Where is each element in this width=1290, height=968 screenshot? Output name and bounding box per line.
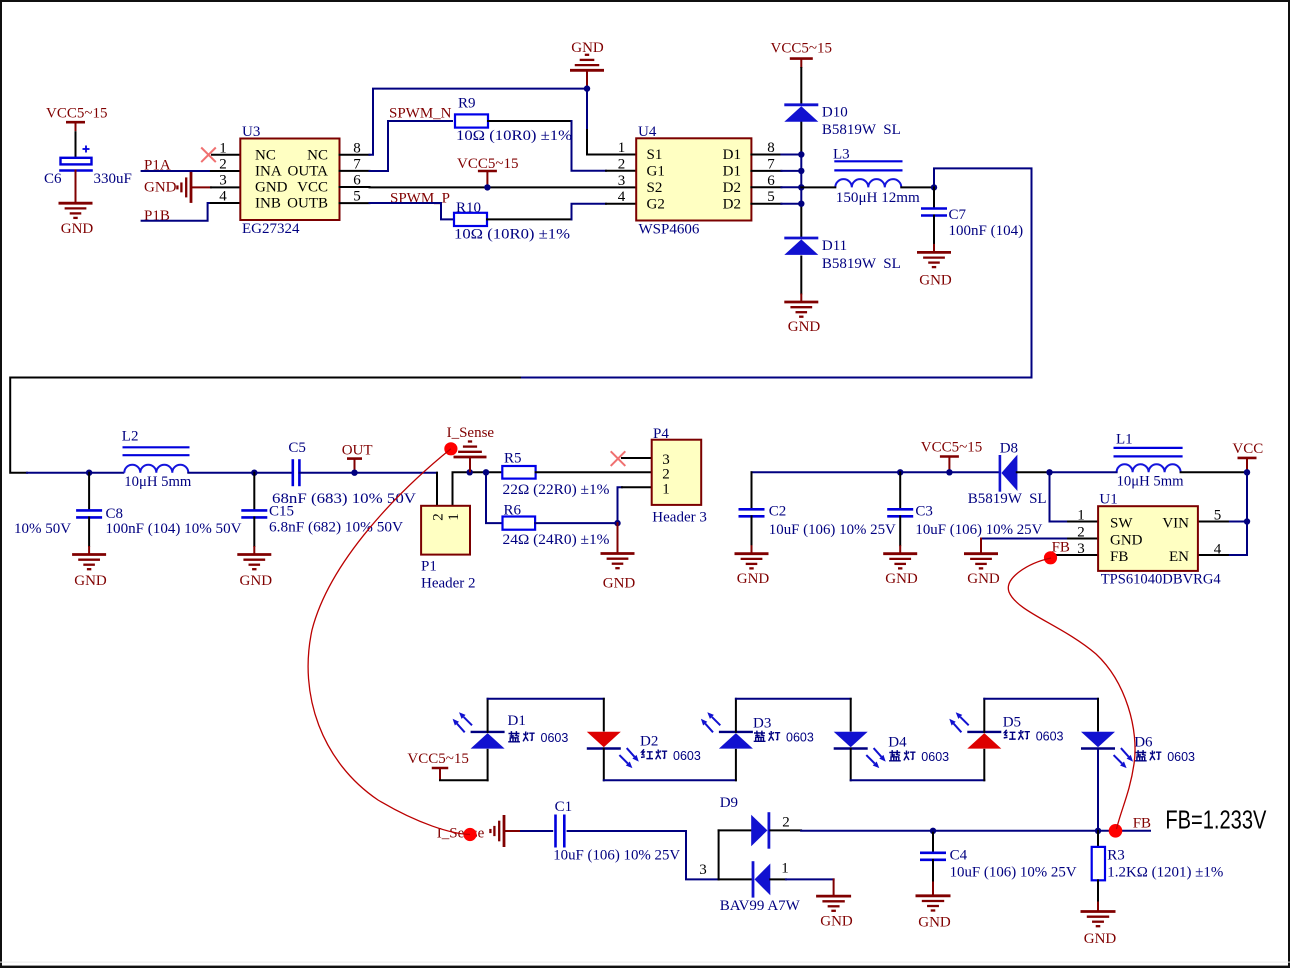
node junction L3/C7	[931, 184, 937, 190]
svg-text:4: 4	[618, 189, 626, 205]
node junction C15	[251, 470, 257, 476]
resistor R6 24R	[503, 517, 536, 530]
ground (C6)	[75, 195, 77, 204]
wire D3 to D4 (top rail)	[736, 698, 851, 700]
svg-text:GND: GND	[967, 571, 1000, 587]
node junction R6 branch	[483, 469, 489, 475]
svg-text:D6: D6	[1134, 735, 1153, 751]
svg-text:S1: S1	[647, 147, 663, 163]
svg-text:100nF (104): 100nF (104)	[949, 223, 1024, 239]
resistor R10 10R	[454, 213, 487, 226]
svg-text:OUT: OUT	[342, 443, 373, 459]
svg-text:C5: C5	[288, 440, 306, 456]
node junction I_Sense tap	[467, 469, 473, 475]
power port VCC5~15 (mid)	[478, 170, 497, 173]
svg-text:Header 3: Header 3	[652, 510, 707, 526]
wire ground to U3 pin 3	[191, 186, 211, 188]
svg-text:SW: SW	[1110, 516, 1133, 532]
mosfet array U4 WSP4606	[636, 138, 751, 220]
wire C3 to ground	[899, 516, 901, 545]
regulator U1 TPS61040DBVRG4	[1098, 506, 1198, 571]
wire R5 to P4 pin 2	[536, 471, 652, 473]
ground (P4/R6)	[601, 552, 635, 555]
wire D5 to D6 (top rail)	[984, 698, 1098, 700]
wire C4 to ground	[932, 860, 934, 882]
svg-text:EG27324: EG27324	[242, 221, 300, 237]
svg-text:0603: 0603	[921, 750, 949, 764]
svg-text:2: 2	[219, 156, 227, 172]
svg-text:1: 1	[618, 140, 626, 156]
LED D2 red 0603	[603, 699, 605, 731]
svg-text:4: 4	[219, 189, 227, 205]
red marker dot FB pin	[1044, 551, 1057, 564]
svg-text:2: 2	[431, 513, 447, 521]
node junction VIN	[1244, 518, 1250, 524]
svg-text:U3: U3	[242, 124, 260, 140]
ground (C4)	[932, 882, 934, 896]
wire P4 pin 3 stub	[622, 457, 652, 459]
svg-text:Header 2: Header 2	[421, 576, 476, 592]
ground (top, inverted)	[586, 70, 588, 88]
capacitor C2 10uF	[751, 472, 753, 508]
svg-text:6.8nF (682) 10% 50V: 6.8nF (682) 10% 50V	[269, 520, 403, 536]
diode D8 B5819W	[999, 456, 1002, 490]
wire U4 right pin stubs to drain rail	[751, 154, 781, 156]
wire P1A to U3 pin 2	[142, 170, 211, 172]
power port VCC5~15 (top)	[790, 57, 813, 60]
svg-text:GND: GND	[820, 914, 853, 930]
svg-text:BAV99 A7W: BAV99 A7W	[720, 898, 801, 914]
wire L3 to C7 node	[901, 186, 934, 188]
LED D3 blue 0603	[735, 750, 737, 781]
svg-text:3: 3	[618, 173, 626, 189]
svg-text:WSP4606: WSP4606	[639, 222, 700, 238]
svg-text:GND: GND	[571, 40, 604, 56]
svg-text:D1: D1	[723, 147, 741, 163]
svg-text:NC: NC	[307, 147, 328, 163]
svg-text:VCC5~15: VCC5~15	[407, 751, 468, 767]
node junction OUT	[351, 470, 357, 476]
ground (R3)	[1081, 910, 1116, 913]
svg-text:VCC: VCC	[1232, 441, 1263, 457]
LED D1 blue 0603	[487, 750, 489, 781]
svg-text:D2: D2	[723, 196, 741, 212]
red marker dot I_Sense top	[444, 442, 457, 455]
diode D10 B5819W	[784, 103, 818, 106]
svg-text:L2: L2	[122, 429, 139, 445]
svg-text:10μH 5mm: 10μH 5mm	[124, 474, 191, 490]
svg-text:D2: D2	[723, 180, 741, 196]
svg-text:GND: GND	[1110, 533, 1143, 549]
wire drain rail to L3	[801, 186, 835, 188]
node junction FB/R3	[1095, 828, 1101, 834]
diode D9 upper (pin 2)	[719, 829, 752, 831]
svg-text:VCC5~15: VCC5~15	[457, 156, 518, 172]
wire U3 pin7 to R9	[370, 121, 453, 171]
svg-text:GND: GND	[61, 221, 94, 237]
wire D8 to SW node	[1017, 471, 1050, 473]
wire C6 to ground	[75, 171, 77, 195]
svg-text:D1: D1	[723, 164, 741, 180]
svg-text:3: 3	[1077, 541, 1085, 557]
svg-text:10uF (106) 10% 25V: 10uF (106) 10% 25V	[915, 522, 1042, 538]
wire R6 branch down	[486, 472, 503, 523]
svg-text:INA: INA	[255, 164, 282, 180]
ground (C3)	[899, 545, 901, 554]
wire GND rail down to U4 pin 1	[586, 89, 588, 130]
svg-text:1: 1	[446, 513, 462, 521]
svg-text:C1: C1	[555, 799, 573, 815]
wire C15 to ground	[253, 517, 255, 546]
wire D1 to D2 (top rail)	[488, 698, 604, 700]
svg-text:B5819W SL: B5819W SL	[968, 491, 1047, 507]
no-connect X on P4 pin 3	[611, 451, 626, 466]
node junctions on drain rail	[798, 151, 804, 157]
wire to P4 ground	[617, 523, 619, 553]
svg-text:VIN: VIN	[1162, 516, 1189, 532]
wire U1 pin5 VIN	[1228, 521, 1247, 523]
wire C5 to P1	[299, 472, 437, 474]
inductor L1 10uH	[1114, 447, 1183, 449]
node junction C8	[86, 470, 92, 476]
wire C7 to ground	[933, 216, 935, 244]
svg-text:R6: R6	[504, 503, 522, 519]
svg-text:C8: C8	[106, 506, 124, 522]
power port VCC5~15 (bottom)	[432, 767, 449, 770]
wire main filter rail left	[27, 472, 123, 474]
wire VCC rail down to U1 EN	[1228, 472, 1247, 555]
power port VCC5~15 (C6 input)	[66, 121, 85, 124]
svg-text:NC: NC	[255, 147, 276, 163]
svg-text:2: 2	[662, 467, 670, 483]
svg-text:G2: G2	[647, 196, 665, 212]
header P1 Header 2	[421, 506, 470, 555]
wire R9 to U4 pin 2	[488, 120, 572, 122]
wire U3 pin6 VCC to U4 pin 3	[370, 186, 637, 188]
power port OUT	[347, 457, 362, 460]
svg-text:GND: GND	[144, 180, 177, 196]
svg-text:B5819W SL: B5819W SL	[822, 122, 901, 138]
svg-text:S2: S2	[647, 180, 663, 196]
wire D11 to ground	[800, 257, 802, 294]
svg-text:0603: 0603	[1167, 750, 1195, 764]
svg-text:L1: L1	[1116, 432, 1133, 448]
svg-text:B5819W SL: B5819W SL	[822, 256, 901, 272]
power port I_Sense (bottom, sideways)	[503, 815, 506, 847]
svg-text:0603: 0603	[541, 731, 569, 745]
svg-text:1: 1	[662, 481, 670, 497]
header P4 Header 3	[652, 440, 702, 505]
svg-text:FB=1.233V: FB=1.233V	[1165, 805, 1267, 835]
node junction C4	[930, 828, 936, 834]
wire D4 to D5 (bottom rail)	[851, 779, 985, 781]
power port VCC5~15 (right)	[940, 455, 959, 458]
svg-text:GND: GND	[74, 573, 107, 589]
svg-text:D4: D4	[888, 735, 907, 751]
svg-text:I_Sense: I_Sense	[447, 425, 495, 441]
wire C2 to ground	[751, 516, 753, 545]
capacitor C8 100nF	[88, 473, 90, 510]
svg-text:10μH 5mm: 10μH 5mm	[1117, 474, 1184, 490]
wire D2 to D3 (bottom rail)	[604, 779, 736, 781]
ground (C8)	[88, 546, 90, 555]
wire R6 to P4 pin 1 and ground	[535, 522, 617, 524]
wire to P1 pin 2	[436, 473, 438, 506]
svg-text:C2: C2	[769, 504, 787, 520]
svg-text:FB: FB	[1110, 549, 1128, 565]
capacitor C3 10uF	[899, 472, 901, 508]
wire U3 pin 1 stub	[212, 154, 240, 156]
power port VCC	[1238, 457, 1257, 460]
capacitor C5 68nF (inline)	[291, 459, 294, 486]
svg-text:0603: 0603	[786, 731, 814, 745]
svg-text:1: 1	[1077, 508, 1085, 524]
capacitor C4 10uF	[932, 831, 934, 852]
red marker dot FB bottom	[1109, 824, 1123, 838]
LED D5 red 0603	[983, 750, 985, 781]
svg-text:10uF (106) 10% 25V: 10uF (106) 10% 25V	[553, 848, 680, 864]
svg-text:VCC5~15: VCC5~15	[771, 41, 832, 57]
LED D6 blue 0603	[1097, 699, 1099, 731]
node junction VCC output	[1244, 469, 1250, 475]
svg-text:R9: R9	[458, 96, 476, 112]
svg-text:INB: INB	[255, 196, 281, 212]
inductor L2 10uH	[123, 446, 190, 448]
ground (C7)	[933, 244, 935, 253]
svg-text:U1: U1	[1099, 492, 1117, 508]
op-amp driver U3 EG27324	[240, 139, 339, 221]
svg-text:GND: GND	[240, 573, 273, 589]
svg-text:OUTA: OUTA	[288, 164, 329, 180]
wire P1 pin 1 to R5 rail	[453, 472, 503, 506]
wire SW node down to U1 pin1	[1050, 472, 1069, 521]
svg-text:10uF (106) 10% 25V: 10uF (106) 10% 25V	[769, 522, 896, 538]
wire input rail (C2 to D8)	[752, 471, 1000, 473]
resistor R3 1.2K (vertical)	[1097, 831, 1099, 847]
diode D9 lower (pin 1)	[719, 878, 752, 880]
svg-text:150μH 12mm: 150μH 12mm	[836, 190, 920, 206]
svg-text:10% 50V: 10% 50V	[14, 521, 71, 537]
svg-text:P1: P1	[421, 559, 437, 575]
svg-text:GND: GND	[737, 571, 770, 587]
sheet border	[0, 0, 1290, 2]
ground (C2)	[751, 545, 753, 554]
ground (C15)	[253, 546, 255, 555]
svg-text:GND: GND	[918, 915, 951, 931]
capacitor C1 10uF (inline)	[554, 815, 557, 848]
wire P1B to U3 pin 4	[142, 203, 211, 221]
svg-text:C7: C7	[949, 207, 967, 223]
svg-text:1: 1	[219, 140, 227, 156]
red annotation curve FB	[1008, 558, 1135, 829]
svg-text:GND: GND	[255, 180, 288, 196]
ground (D11)	[800, 294, 802, 303]
wire U1 pin4 EN stub	[1198, 554, 1228, 556]
svg-text:L3: L3	[833, 147, 850, 163]
capacitor C6 330uF (polarized)	[83, 148, 90, 150]
svg-text:D9: D9	[720, 795, 738, 811]
ground (D9)	[816, 895, 851, 898]
wire D9 pin1 to ground	[786, 878, 834, 880]
LED D4 blue 0603	[850, 699, 852, 731]
wire R3 to ground	[1097, 880, 1099, 902]
wire U3 pin5 to R10	[370, 203, 453, 219]
wire U3 right pin stubs	[340, 154, 370, 156]
svg-text:100nF (104) 10% 50V: 100nF (104) 10% 50V	[106, 521, 242, 537]
wire to U1 ground	[980, 539, 982, 554]
svg-text:C3: C3	[915, 504, 933, 520]
node junction C3	[897, 469, 903, 475]
wire U3 pin8 to GND rail	[370, 89, 588, 155]
wire I_Sense to C1	[504, 830, 521, 832]
svg-text:1.2KΩ (1201) ±1%: 1.2KΩ (1201) ±1%	[1107, 865, 1223, 881]
svg-text:D5: D5	[1003, 715, 1021, 731]
svg-text:OUTB: OUTB	[287, 196, 328, 212]
svg-text:2: 2	[1077, 525, 1085, 541]
svg-text:0603: 0603	[1036, 730, 1064, 744]
svg-text:GND: GND	[919, 273, 952, 289]
svg-text:SPWM_N: SPWM_N	[389, 106, 452, 122]
wire C8 to ground	[88, 517, 90, 546]
svg-text:GND: GND	[885, 571, 918, 587]
svg-text:5: 5	[1214, 508, 1222, 524]
svg-text:D10: D10	[822, 105, 848, 121]
svg-text:0603: 0603	[673, 749, 701, 763]
svg-text:24Ω (24R0) ±1%: 24Ω (24R0) ±1%	[503, 532, 610, 548]
wire L2 to C15/C5	[188, 472, 292, 474]
wire D9 common vertical	[718, 830, 720, 879]
svg-text:D11: D11	[822, 238, 847, 254]
svg-text:VCC5~15: VCC5~15	[46, 106, 107, 122]
svg-text:GND: GND	[1084, 931, 1117, 947]
svg-text:2: 2	[618, 156, 626, 172]
svg-text:68nF (683) 10% 50V: 68nF (683) 10% 50V	[272, 491, 416, 507]
no-connect X on U3 pin 1	[201, 148, 216, 163]
svg-text:R10: R10	[456, 200, 481, 216]
wire L1 to VCC	[1181, 471, 1247, 473]
inductor L3 150uH	[834, 160, 902, 162]
svg-text:GND: GND	[788, 319, 821, 335]
svg-text:3: 3	[699, 862, 707, 878]
node junction VCC mid	[484, 184, 490, 190]
svg-text:VCC: VCC	[297, 180, 328, 196]
wire D6 down to FB node	[1097, 749, 1099, 831]
power port I_Sense (top)	[469, 457, 471, 472]
diode D11 B5819W	[784, 237, 818, 240]
svg-text:G1: G1	[647, 164, 665, 180]
svg-text:TPS61040DBVRG4: TPS61040DBVRG4	[1101, 572, 1221, 588]
node junction P4 pin1/ground	[614, 520, 620, 526]
svg-text:P4: P4	[653, 426, 669, 442]
node junction VCC right	[946, 469, 952, 475]
svg-text:10Ω (10R0) ±1%: 10Ω (10R0) ±1%	[454, 227, 570, 243]
wire drain rail vertical	[800, 121, 802, 154]
svg-text:D8: D8	[1000, 441, 1018, 457]
wire VCC to D1	[440, 779, 488, 781]
wire FB rail	[933, 830, 1150, 832]
wire U1 pin3 FB stub	[1056, 554, 1098, 556]
svg-text:U4: U4	[638, 124, 657, 140]
wire output loop to lower filter	[520, 168, 1032, 377]
resistor R9 10R	[455, 114, 488, 127]
svg-text:EN: EN	[1169, 549, 1189, 565]
svg-text:4: 4	[1214, 542, 1222, 558]
svg-text:C4: C4	[950, 848, 968, 864]
svg-text:22Ω (22R0) ±1%: 22Ω (22R0) ±1%	[503, 482, 610, 498]
wire R10 to U4 pin 4	[487, 218, 572, 220]
svg-text:D2: D2	[640, 734, 658, 750]
svg-text:D1: D1	[508, 713, 526, 729]
svg-text:VCC5~15: VCC5~15	[921, 440, 982, 456]
capacitor C15 6.8nF	[253, 473, 255, 510]
svg-text:D3: D3	[753, 716, 771, 732]
svg-text:C6: C6	[44, 171, 62, 187]
svg-text:330uF: 330uF	[94, 171, 132, 187]
wire SW node to L1	[1050, 471, 1117, 473]
svg-text:3: 3	[219, 173, 227, 189]
red marker dot I_Sense bottom	[463, 828, 476, 841]
wire U1 pin2 GND	[981, 538, 1068, 540]
svg-text:1: 1	[781, 861, 789, 877]
capacitor C7 100nF	[933, 187, 935, 207]
svg-text:FB: FB	[1133, 816, 1151, 832]
svg-text:10uF (106) 10% 25V: 10uF (106) 10% 25V	[950, 865, 1077, 881]
svg-text:R3: R3	[1107, 848, 1125, 864]
svg-text:GND: GND	[603, 576, 636, 592]
wire C1 to D9 pin 3	[568, 831, 719, 879]
svg-text:2: 2	[782, 815, 790, 831]
red annotation curve I_Sense	[308, 449, 470, 835]
resistor R5 22R	[502, 466, 535, 479]
svg-text:10Ω (10R0) ±1%: 10Ω (10R0) ±1%	[456, 128, 572, 144]
ground (U1)	[964, 552, 998, 555]
node junction top GND	[584, 85, 590, 91]
wire D9 pin2 to C4/FB rail	[801, 830, 933, 832]
svg-text:R5: R5	[504, 451, 522, 467]
node junction SW	[1046, 469, 1052, 475]
